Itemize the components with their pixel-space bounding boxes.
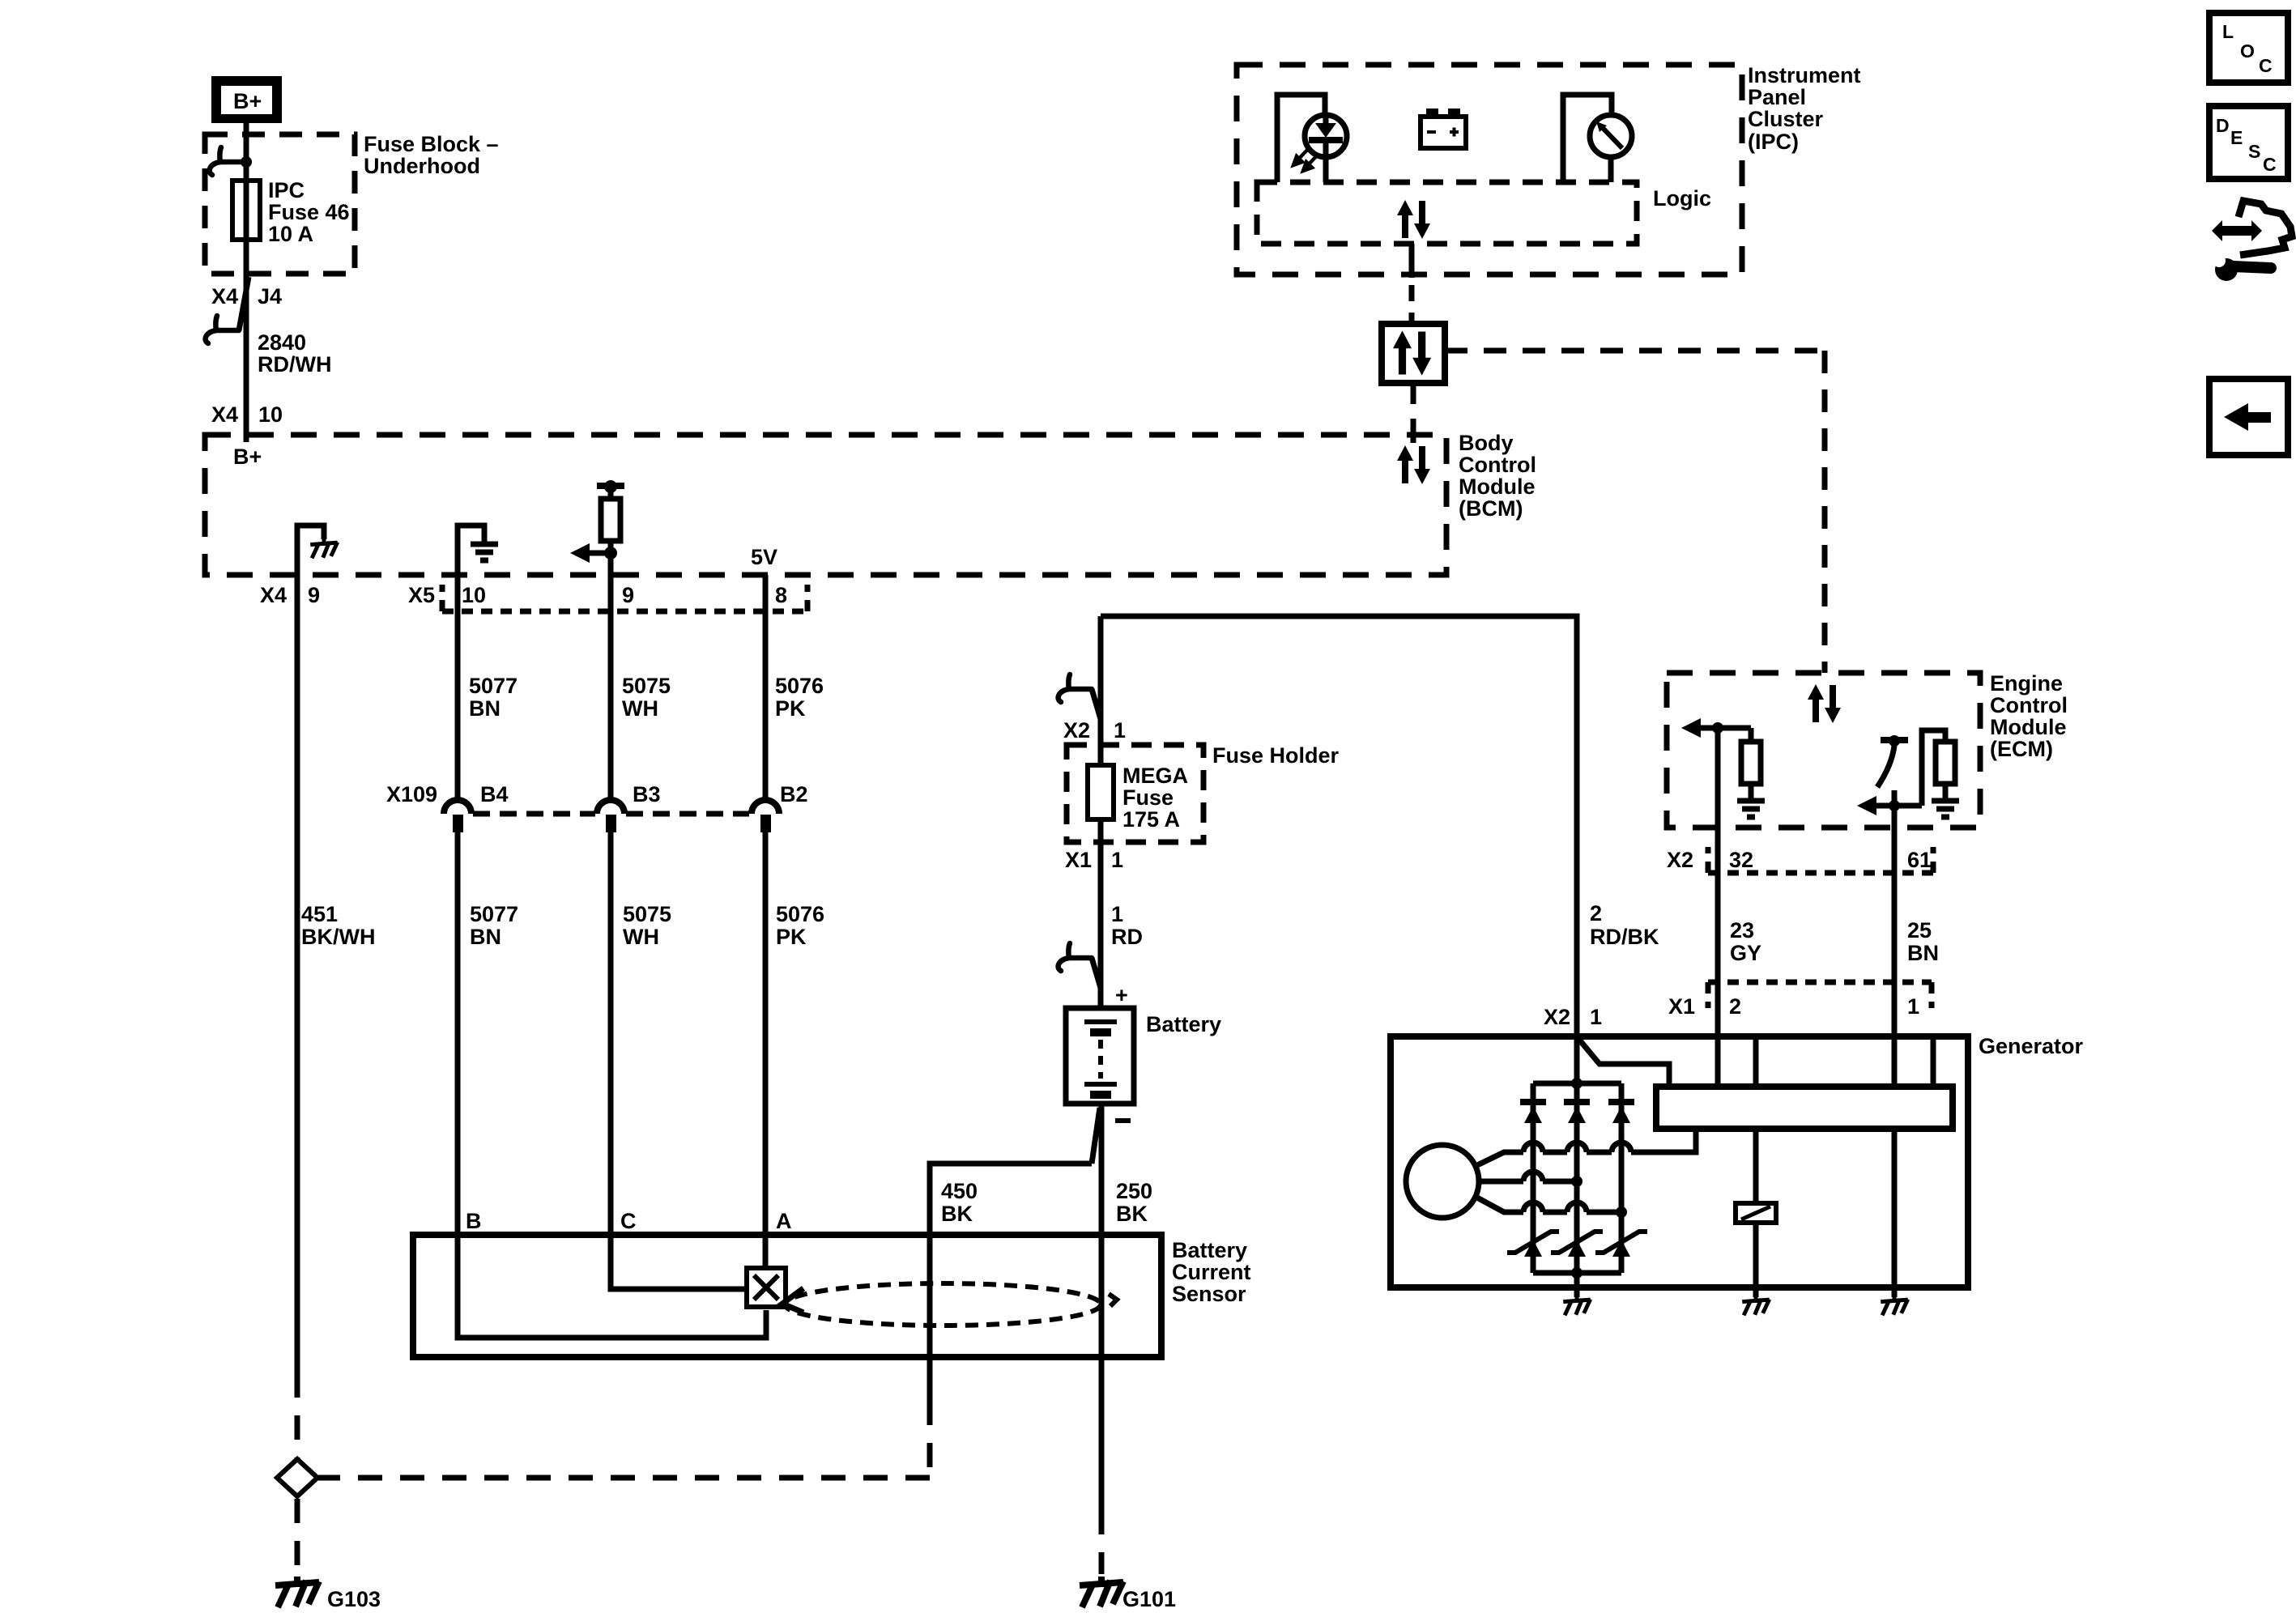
svg-text:Logic: Logic [1653,186,1711,211]
back arrow icon box [2209,379,2288,455]
svg-text:Generator: Generator [1979,1034,2084,1058]
ECM resistor to ground (pin 61) [1922,730,1959,817]
ECM pull-up resistor (pin 32) [1737,728,1765,817]
ECM switch (pin 61) [1877,735,1908,787]
sensor internal wire C [611,1235,745,1289]
pin labels X1 2 1 [1668,994,1919,1019]
svg-text:X4: X4 [211,284,238,309]
connector X1 at generator [1708,982,1932,1008]
svg-text:2: 2 [1729,994,1741,1019]
diagnostic pointer and wrench icon [2212,201,2292,281]
label Instrument Panel Cluster (IPC) [1748,63,1861,154]
connector terminal B4 [444,800,471,832]
svg-text:A: A [776,1209,792,1233]
svg-text:5075: 5075 [622,674,671,698]
splice diamond [277,1459,317,1496]
svg-text:Module: Module [1459,474,1536,499]
BCM internal chassis ground branch (pin X4-9) [297,526,338,575]
svg-text:Cluster: Cluster [1748,107,1824,131]
wire 5075 WH lower [608,832,614,1235]
svg-text:9: 9 [622,583,634,607]
labels 451 BK/WH [301,902,375,949]
node junction at fuse input [241,156,252,168]
rectifier positive rail [1533,1081,1621,1087]
svg-text:10: 10 [462,583,486,607]
svg-text:1: 1 [1111,902,1123,926]
rectifier phase wire 1 [1531,1083,1536,1273]
svg-text:BK: BK [941,1202,973,1226]
svg-text:B: B [466,1209,482,1233]
logic serial arrows [1397,200,1430,239]
connector terminal B2 [752,800,779,832]
labels 250 BK [1116,1179,1152,1226]
svg-text:Control: Control [1990,693,2068,717]
svg-text:10: 10 [258,402,283,427]
battery telltale icon [1421,109,1466,148]
svg-text:C: C [620,1209,637,1233]
svg-text:23: 23 [1730,918,1754,943]
svg-text:S: S [2248,141,2260,162]
svg-text:Fuse Block –: Fuse Block – [364,132,499,156]
svg-text:BK: BK [1116,1202,1148,1226]
ground G103 [275,1577,381,1611]
connector X5 dotted line [442,585,807,611]
svg-text:RD/BK: RD/BK [1590,925,1659,949]
labels X2 1 at fuse holder [1063,718,1126,743]
clip at fuse block input [210,147,243,175]
wire 5077 BN upper [455,575,461,803]
connector X109 dashed link [473,811,749,817]
wire gauge to logic [1608,157,1614,182]
wire 5077 BN lower [455,832,461,1235]
MEGA fuse 175A [1088,764,1188,832]
svg-text:G103: G103 [327,1587,381,1611]
avalanche diode 3 [1595,1232,1647,1257]
svg-text:1: 1 [1590,1005,1602,1029]
svg-text:Battery: Battery [1146,1012,1221,1036]
ECM serial arrows [1808,684,1841,723]
upper diode 2 [1564,1102,1590,1123]
svg-text:Fuse: Fuse [1122,785,1174,810]
dashed wire splice to G103 [295,1499,300,1569]
label 2 RD/BK [1590,901,1659,949]
svg-text:1: 1 [1114,718,1126,743]
labels 5076 PK lower [776,902,824,949]
stator winding row 2 [1479,1172,1577,1181]
svg-text:450: 450 [941,1179,978,1203]
battery [1066,1008,1134,1104]
svg-text:Fuse Holder: Fuse Holder [1212,743,1340,768]
dashed wire 450 BK to splice [318,1401,930,1478]
svg-text:BK/WH: BK/WH [301,925,375,949]
BCM internal earth ground branch (pin X5-10) [458,526,498,575]
pin labels X2 1 at generator [1544,1005,1602,1029]
svg-text:PK: PK [775,696,806,721]
wire 25 BN through generator to ground [1892,1129,1898,1297]
upper diode 3 [1608,1102,1634,1123]
svg-text:5077: 5077 [469,674,518,698]
generator box [1391,1036,1968,1287]
BCM serial arrows [1397,445,1430,484]
labels 5076 PK [775,674,824,721]
svg-text:E: E [2230,127,2243,148]
wire branch to 450 BK [930,1108,1100,1401]
svg-text:RD/WH: RD/WH [258,352,331,377]
labels X1 1 below fuse holder [1065,848,1123,872]
svg-text:9: 9 [308,583,320,607]
labels 5075 WH [622,674,671,721]
svg-text:5076: 5076 [776,902,824,926]
battery current sensor box [413,1235,1161,1357]
field relay coil [1736,1129,1776,1297]
dashed wire serial box to BCM [1411,383,1416,434]
wire 451 BK/WH [295,575,300,1373]
svg-text:1: 1 [1111,848,1123,872]
svg-text:Body: Body [1459,431,1514,455]
svg-text:Instrument: Instrument [1748,63,1861,87]
wire 25 BN (ECM 61 to generator X1-1) [1892,790,1898,1087]
generator internal ground wire [1574,1273,1580,1297]
labels 5075 WH lower [623,902,671,949]
fuse holder box [1067,745,1203,842]
svg-text:(IPC): (IPC) [1748,130,1799,154]
sensor internal wire B [458,1235,766,1338]
label Engine Control Module (ECM) [1990,671,2068,761]
indicator lamp [1305,115,1347,157]
rotor [1406,1145,1479,1218]
logic box [1257,182,1637,244]
svg-text:B2: B2 [780,782,808,806]
svg-text:61: 61 [1907,848,1932,872]
svg-text:1: 1 [1907,994,1919,1019]
svg-text:(ECM): (ECM) [1990,737,2053,761]
svg-text:Control: Control [1459,453,1536,477]
generator rectifier ground [1563,1296,1590,1316]
indicator lamp loop wiring [1277,95,1325,182]
wire 5075 WH upper [608,575,614,803]
svg-text:O: O [2240,40,2255,62]
wire label 2840 RD/WH [258,330,331,377]
junction at negative rail [1571,1267,1582,1279]
wire 1 RD [1098,819,1104,1011]
svg-text:+: + [1115,983,1128,1007]
engine control module box [1667,673,1980,828]
svg-text:Underhood: Underhood [364,154,480,178]
svg-text:PK: PK [776,925,807,949]
svg-text:2: 2 [1590,901,1602,926]
svg-text:5075: 5075 [623,902,671,926]
svg-text:X5: X5 [408,583,435,607]
svg-text:250: 250 [1116,1179,1152,1203]
labels 450 BK [941,1179,978,1226]
svg-text:Battery: Battery [1172,1238,1247,1262]
svg-text:C: C [2259,55,2273,76]
svg-text:25: 25 [1907,918,1932,943]
svg-text:BN: BN [469,696,501,721]
fuse IPC Fuse 46 10A [232,178,350,246]
labels 5077 BN [469,674,518,721]
labels B C A [466,1209,792,1233]
LOC icon box [2209,13,2288,83]
junction at rectifier rail [1571,1078,1582,1089]
svg-text:175 A: 175 A [1122,807,1180,832]
svg-text:5077: 5077 [470,902,518,926]
svg-text:X2: X2 [1063,718,1090,743]
svg-text:B+: B+ [233,445,262,469]
labels 25 BN [1907,918,1939,965]
body control module box [205,435,1446,575]
svg-text:X109: X109 [386,782,437,806]
label Fuse Block - Underhood [364,132,499,178]
avalanche diode 1 [1507,1232,1559,1257]
wire 5076 PK lower [763,832,769,1235]
dashed wire 250 BK to G101 [1099,1510,1105,1574]
svg-text:B4: B4 [480,782,509,806]
clip at X4/J4 [206,277,249,343]
svg-text:X2: X2 [1544,1005,1570,1029]
svg-text:WH: WH [622,696,658,721]
svg-text:RD: RD [1111,925,1143,949]
svg-text:GY: GY [1730,941,1761,965]
svg-text:X2: X2 [1667,848,1693,872]
wire logic to serial box [1409,244,1415,324]
ECM pin 61 node with left arrow [1857,796,1922,815]
rectifier negative rail [1533,1270,1621,1276]
upper diode 1 [1520,1102,1546,1123]
svg-text:BN: BN [470,925,501,949]
svg-text:X4: X4 [211,402,238,427]
DESC icon box [2209,106,2288,179]
voltage regulator box [1656,1087,1953,1129]
clip above fuse holder [1059,674,1101,719]
B+ terminal [211,76,282,123]
stator winding row 1 [1476,1131,1696,1166]
labels 5077 BN lower [470,902,518,949]
svg-text:Module: Module [1990,715,2067,739]
svg-text:J4: J4 [258,284,282,309]
fuse block - underhood box [205,134,355,274]
svg-text:5V: 5V [751,545,777,569]
label 1 RD [1111,902,1143,949]
svg-text:5076: 5076 [775,674,824,698]
instrument panel cluster box [1237,65,1742,274]
svg-text:L: L [2222,21,2234,42]
serial data gateway box [1382,324,1445,383]
label Battery Current Sensor [1172,1238,1251,1306]
wire fuse to BCM (2840 RD/WH) [244,240,249,442]
svg-text:WH: WH [623,925,659,949]
svg-text:Panel: Panel [1748,85,1806,109]
svg-text:MEGA: MEGA [1122,764,1188,788]
connector X4 10 labels [211,402,283,427]
stator winding row 3 [1476,1197,1621,1212]
svg-text:BN: BN [1907,941,1939,965]
wire battery positive feed [1098,616,1104,765]
clip above battery [1059,943,1101,988]
rectifier phase wire 3 [1619,1083,1625,1273]
ECM left arrow output (pin 32 node) [1681,718,1751,738]
sensor internal wire A [763,1235,769,1271]
svg-text:10 A: 10 A [268,222,313,246]
svg-text:D: D [2216,115,2230,136]
svg-text:8: 8 [775,583,787,607]
wire 2 RD/BK horizontal top run [1101,616,1577,1036]
connector X4 J4 labels [211,284,282,309]
labels 23 GY [1730,918,1761,965]
wire 23 GY (ECM 32 to generator X1-2) [1715,728,1721,1087]
sensor flux loop dashed ellipse [782,1283,1117,1326]
svg-text:Engine: Engine [1990,671,2063,696]
svg-text:B+: B+ [233,89,262,113]
connector X2 at ECM [1708,847,1933,873]
svg-text:X4: X4 [260,583,287,607]
avalanche diode 2 [1551,1232,1603,1257]
connector terminal B3 [597,800,624,832]
wire B+ to fuse block [244,123,249,181]
wire lamp to logic [1323,157,1329,182]
svg-text:Current: Current [1172,1260,1251,1284]
svg-text:2840: 2840 [258,330,306,355]
generator relay ground [1742,1296,1769,1316]
battery minus label [1115,1118,1131,1123]
pin labels X5 10 9 8 [408,583,787,607]
generator output ground [1881,1296,1907,1316]
regulator terminal line X1-2 pair [1753,1036,1759,1087]
regulator terminal line X1-1 pair [1931,1036,1936,1087]
svg-text:IPC: IPC [268,178,305,202]
ground G101 [1080,1577,1176,1611]
svg-text:Sensor: Sensor [1172,1282,1246,1306]
sensor element X box [747,1268,786,1307]
wire battery negative 250 BK [1099,1104,1105,1510]
gauge [1590,115,1632,157]
lamp emission arrows [1293,148,1318,171]
svg-text:B3: B3 [633,782,661,806]
svg-text:X1: X1 [1065,848,1092,872]
BCM internal resistor branch (pin 9) [570,480,624,575]
rectifier phase wire 2 [1574,1036,1580,1273]
gauge loop wiring [1563,95,1612,182]
svg-text:Fuse 46: Fuse 46 [268,200,350,224]
svg-text:(BCM): (BCM) [1459,496,1523,521]
pin labels X2 32 61 [1667,848,1932,872]
svg-text:451: 451 [301,902,338,926]
dashed wire 451 to splice [295,1373,300,1458]
labels X109 B4 B3 B2 [386,782,808,806]
dashed wire serial box to ECM [1445,351,1825,673]
wire 5076 PK upper [763,575,769,803]
svg-text:C: C [2263,154,2277,175]
label Body Control Module (BCM) [1459,431,1536,521]
pin labels X4 9 [260,583,320,607]
svg-text:32: 32 [1729,848,1753,872]
svg-text:X1: X1 [1668,994,1695,1019]
svg-text:G101: G101 [1122,1587,1176,1611]
internal jog from X2-1 to regulator [1579,1040,1669,1087]
